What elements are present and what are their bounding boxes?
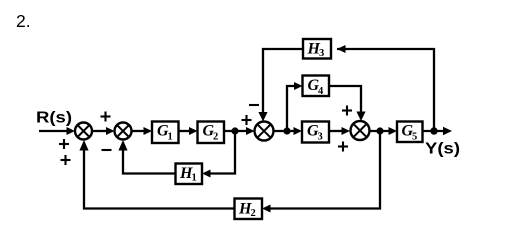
svg-text:3: 3: [318, 132, 323, 143]
svg-text:5: 5: [412, 132, 417, 143]
svg-text:2: 2: [251, 208, 256, 219]
svg-text:4: 4: [318, 86, 324, 97]
svg-text:3: 3: [319, 48, 324, 59]
svg-text:2: 2: [213, 132, 218, 143]
svg-text:1: 1: [168, 132, 173, 143]
svg-text:1: 1: [192, 173, 197, 184]
svg-text:R(s): R(s): [36, 110, 72, 127]
svg-text:Y(s): Y(s): [425, 141, 460, 158]
